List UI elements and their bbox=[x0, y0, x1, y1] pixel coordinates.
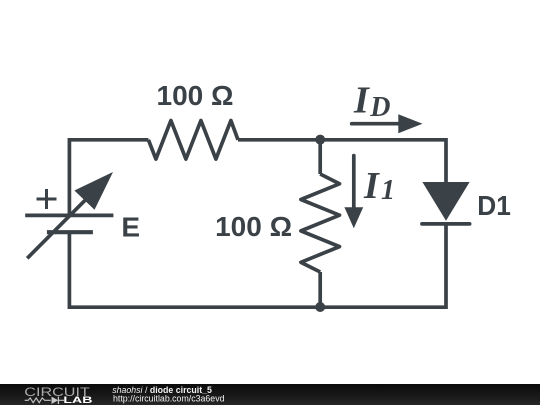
wire: source E positive terminal up and right to resistor (top-left corner) bbox=[69, 140, 148, 216]
resistor 100ohm top horizontal zigzag bbox=[148, 121, 238, 160]
resistor 100ohm middle vertical zigzag bbox=[301, 174, 340, 272]
source E variability arrow shaft bbox=[27, 193, 92, 258]
svg-text:I: I bbox=[363, 165, 380, 207]
wire: diode cathode down, bottom wire, up to source E negative terminal bbox=[69, 224, 446, 307]
svg-text:100 Ω: 100 Ω bbox=[215, 211, 292, 242]
label I_1 bbox=[363, 165, 395, 207]
diode D1 cathode bar bbox=[422, 222, 470, 226]
diode D1 anode triangle bbox=[422, 182, 469, 221]
svg-text:D1: D1 bbox=[477, 190, 511, 221]
source E plus sign bbox=[37, 189, 57, 209]
wire: top wire from resistor through node A to top-right corner, down to diode bbox=[238, 140, 446, 182]
node A junction dot bbox=[315, 135, 325, 145]
wire: node A down to middle resistor bbox=[318, 140, 322, 174]
svg-text:100 Ω: 100 Ω bbox=[157, 80, 234, 111]
diode D1 bbox=[422, 182, 470, 224]
svg-text:http://circuitlab.com/c3a6evd: http://circuitlab.com/c3a6evd bbox=[113, 394, 225, 404]
source E variability arrowhead bbox=[74, 172, 113, 210]
source E short negative plate bbox=[47, 230, 93, 234]
footer attribution bar bbox=[0, 384, 540, 405]
CircuitLab logo resistor zigzag bbox=[25, 398, 51, 403]
svg-text:I: I bbox=[353, 80, 370, 122]
source E (variable voltage source) bbox=[25, 172, 113, 258]
svg-text:E: E bbox=[121, 212, 140, 243]
wire: middle resistor down to node B bbox=[318, 272, 322, 307]
CircuitLab logo diode symbol bbox=[52, 397, 59, 404]
svg-text:1: 1 bbox=[381, 175, 395, 206]
node B junction dot bbox=[315, 302, 325, 312]
current arrow ID (diode current, pointing right) bbox=[352, 114, 423, 133]
current arrow I1 (resistor current, pointing down) bbox=[344, 156, 363, 229]
source E long positive plate bbox=[25, 214, 113, 218]
svg-text:LAB: LAB bbox=[63, 395, 92, 405]
svg-text:D: D bbox=[369, 92, 390, 123]
label I_D bbox=[353, 80, 390, 123]
